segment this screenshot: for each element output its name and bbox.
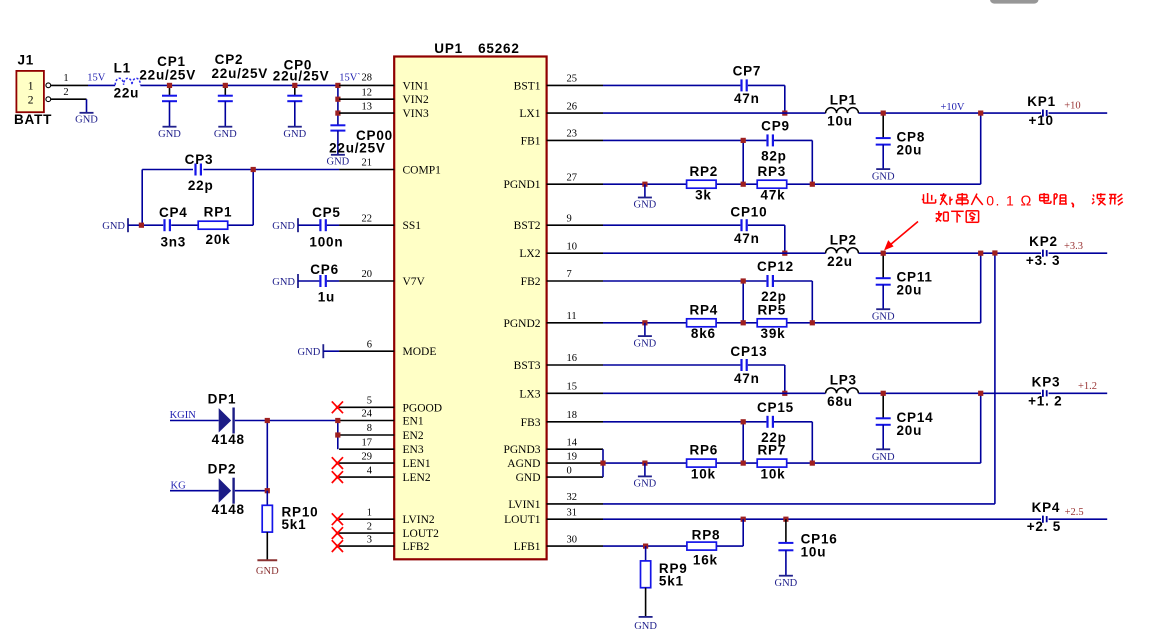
junction output rail ch2 [978,251,983,256]
junction CP7 to LX [782,111,787,116]
svg-text:22u/25V: 22u/25V [139,68,196,83]
svg-text:V7V: V7V [403,276,426,288]
svg-text:COMP1: COMP1 [403,165,442,177]
capacitor CP12 22p (feedforward) [757,259,794,304]
junction divider top [810,182,815,187]
wire J1 pin 1 to L1 (net 15V) [51,73,115,98]
junction FB1 divider tap [741,138,746,143]
svg-text:UP1: UP1 [434,41,463,56]
capacitor CP16 10u [778,519,837,576]
svg-text:1u: 1u [318,290,335,305]
junction EN2 tap [335,432,340,437]
ground (RP9) [634,617,657,632]
pin 11 (PGND2) right [503,311,603,330]
svg-text:31: 31 [567,507,578,518]
wire LX1 row [603,112,1107,114]
junction RP8 riser on LOUT1 [741,517,746,522]
wire 15V rail L1 to VIN pins [140,84,339,86]
junction FB2 divider tap [741,278,746,283]
diode DP2 4148 [208,462,245,518]
svg-text:LEN2: LEN2 [403,472,431,484]
node KG net label [171,481,187,492]
svg-text:CP12: CP12 [757,259,794,274]
svg-text:RP6: RP6 [689,443,718,458]
pin 29 (LEN1) left [339,451,431,470]
ground (CP16) [775,576,798,590]
connector KP4 (+2.5) [1027,500,1084,534]
svg-text:10k: 10k [691,467,716,482]
svg-text:GND: GND [516,472,541,484]
pin 18 (FB3) right [521,410,603,429]
svg-text:22u/25V: 22u/25V [273,69,330,84]
wire LFB1 row [603,519,743,546]
svg-text:15: 15 [567,382,578,393]
annotation text line 1 (red): 0.1 ohm note [922,192,1123,209]
junction CP0 on 15V rail [292,83,297,88]
junction CP2 on 15V rail [223,83,228,88]
svg-text:13: 13 [362,101,373,112]
svg-text:20u: 20u [897,283,923,298]
svg-text:PGND3: PGND3 [503,444,540,456]
pin 16 (BST3) right [514,353,603,372]
junction bracket AGND [600,461,605,466]
svg-text:16k: 16k [693,553,718,568]
svg-text:KP1: KP1 [1027,94,1056,109]
pin 30 (LFB1) right [514,534,603,553]
svg-text:KG: KG [171,481,187,492]
resistor RP9 5k1 [641,546,688,617]
svg-text:+2.5: +2.5 [1065,507,1084,518]
junction EN1 tap [335,418,340,423]
pin 23 (FB1) right [521,129,603,148]
svg-text:BST2: BST2 [514,220,541,232]
svg-text:17: 17 [362,437,373,448]
svg-text:GND: GND [272,277,295,288]
svg-text:BATT: BATT [14,112,52,127]
junction CP16 on LOUT1 [783,517,788,522]
svg-text:EN1: EN1 [403,416,424,428]
pin 10 (LX2) right [519,241,603,260]
svg-text:+10: +10 [1029,113,1054,128]
svg-text:9: 9 [567,213,572,224]
svg-text:LVIN2: LVIN2 [403,514,435,526]
no-connect X on PGOOD [332,401,343,413]
svg-text:0: 0 [567,465,572,476]
capacitor CP6 1u [298,262,339,305]
node +10V net label [941,102,965,113]
ground (CP00) [327,155,350,168]
pin 26 (LX1) right [519,101,603,120]
no-connect X on LOUT2 [332,527,343,539]
svg-text:CP13: CP13 [730,344,767,359]
svg-text:4148: 4148 [212,432,245,447]
capacitor CP9 82p (feedforward) [761,118,790,163]
svg-text:VIN1: VIN1 [403,80,429,92]
ground (divider ch1) [634,184,657,211]
ground (CP0) [283,127,306,140]
pin 21 (COMP1) left [339,158,441,177]
junction divider mid [741,461,746,466]
svg-text:EN2: EN2 [403,430,424,442]
junction CP1 on 15V rail [167,83,172,88]
svg-text:KP3: KP3 [1032,374,1061,389]
wire J1 pin 2 to ground [51,98,87,100]
resistor RP3 47k [757,164,787,203]
connector J1 (BATT) [14,53,52,128]
ground (RP10, power gnd) [256,560,279,577]
ground (CP6 left) [272,274,298,288]
wire LX3 row [603,392,1107,394]
wire PGND3/AGND/GND bracket [602,449,604,477]
wire PGND1 row (divider) [603,113,981,184]
svg-text:CP9: CP9 [761,118,790,133]
svg-text:47k: 47k [761,188,786,203]
svg-text:GND: GND [634,621,657,632]
inductor LP1 10u [826,93,859,129]
svg-text:5: 5 [367,396,372,407]
svg-text:GND: GND [872,172,895,183]
no-connect X on LVIN2 [332,513,343,525]
resistor RP1 20k [198,204,232,247]
svg-text:FB3: FB3 [521,417,541,429]
svg-text:30: 30 [567,534,578,545]
junction divider ground tap [642,461,647,466]
junction CP10 to LX [782,251,787,256]
svg-text:29: 29 [362,451,373,462]
pin 25 (BST1) right [514,74,603,93]
pin 27 (PGND1) right [503,172,603,191]
svg-text:47n: 47n [734,231,760,246]
svg-text:+2. 5: +2. 5 [1027,519,1061,534]
svg-text:21: 21 [362,158,373,169]
ground (CP4 left) [102,218,128,232]
junction CP14 on LX [881,391,886,396]
pin 8 (EN2) left [339,423,424,442]
svg-text:8k6: 8k6 [691,326,716,341]
svg-text:LX1: LX1 [519,108,540,120]
svg-text:LEN1: LEN1 [403,458,431,470]
svg-text:GND: GND [298,347,321,358]
pin 24 (EN1) left [339,409,424,428]
resistor RP10 5k1 [262,491,318,561]
svg-text:CP2: CP2 [215,52,244,67]
pin 13 (VIN3) left [339,101,429,120]
svg-text:LVIN1: LVIN1 [508,499,540,511]
svg-text:AGND: AGND [507,458,540,470]
svg-text:32: 32 [567,492,578,503]
svg-text:2: 2 [28,95,34,107]
svg-text:+3.3: +3.3 [1064,241,1083,252]
capacitor CP00 22u/25V [329,125,393,155]
svg-text:14: 14 [567,437,578,448]
junction CP8 on LX [881,111,886,116]
resistor RP4 8k6 [687,302,719,341]
svg-text:+10V: +10V [941,102,965,113]
wire FB2 row [603,281,812,323]
inductor LP2 22u [826,233,859,269]
svg-text:RP8: RP8 [692,528,721,543]
svg-text:BST1: BST1 [514,80,541,92]
junction DP1 node [265,418,270,423]
svg-text:RP7: RP7 [757,443,786,458]
junction divider top [810,461,815,466]
svg-text:24: 24 [362,409,373,420]
svg-text:20u: 20u [897,143,923,158]
capacitor CP1 22u/25V [139,54,196,127]
svg-text:PGND1: PGND1 [503,179,540,191]
wire PGND2 row (divider) [603,253,981,323]
svg-text:1: 1 [367,507,372,518]
svg-text:15V: 15V [87,73,106,84]
junction VIN3 branch [335,111,340,116]
svg-text:FB1: FB1 [521,135,541,147]
connector KP1 (+10) [1027,94,1080,128]
svg-text:LX3: LX3 [519,388,540,400]
svg-text:47n: 47n [734,91,760,106]
svg-text:RP2: RP2 [689,164,718,179]
capacitor CP11 20u (output) [876,253,933,309]
svg-text:2: 2 [367,521,372,532]
ground (MODE) [298,344,340,358]
resistor RP7 10k [757,443,787,482]
svg-text:GND: GND [872,312,895,323]
wire COMP1 node [142,170,339,226]
svg-text:+1. 2: +1. 2 [1028,393,1062,408]
svg-text:20k: 20k [206,232,231,247]
ground (CP1) [158,127,181,140]
resistor RP8 16k [687,528,720,568]
wire FB1 row [603,140,812,184]
svg-text:8: 8 [367,423,372,434]
svg-text:RP5: RP5 [757,302,786,317]
svg-text:EN3: EN3 [403,444,424,456]
svg-text:GND: GND [272,221,295,232]
svg-text:L1: L1 [114,61,131,76]
svg-text:RP1: RP1 [204,204,233,219]
svg-text:22: 22 [362,213,373,224]
capacitor CP7 47n (bootstrap) [603,64,785,114]
svg-text:22u/25V: 22u/25V [211,66,268,81]
svg-text:CP15: CP15 [757,400,794,415]
pin 9 (BST2) right [514,213,603,232]
ground (divider ch2) [634,323,657,350]
svg-text:22p: 22p [188,178,214,193]
junction CP11 on LX [881,251,886,256]
capacitor CP5 100n [298,205,343,249]
pin 5 (PGOOD) left [339,396,442,415]
svg-text:GND: GND [102,221,125,232]
svg-text:4148: 4148 [212,502,245,517]
capacitor CP2 22u/25V [211,52,268,127]
svg-text:CP3: CP3 [185,152,214,167]
svg-text:10u: 10u [801,545,827,560]
svg-text:GND: GND [75,115,98,126]
svg-text:3n3: 3n3 [160,234,186,249]
resistor RP5 39k [757,302,787,341]
wire SS network row [128,224,253,226]
svg-text:+3. 3: +3. 3 [1026,253,1060,268]
ground (divider ch3) [634,463,657,490]
svg-text:LOUT1: LOUT1 [504,514,541,526]
ground (CP8) [872,169,895,183]
svg-text:SS1: SS1 [403,220,422,232]
pin 1 (LVIN2) left [339,507,435,526]
junction CP13 to LX [782,391,787,396]
svg-text:J1: J1 [18,53,35,68]
ground (J1 pin 2) [75,99,98,125]
svg-text:VIN3: VIN3 [403,108,429,120]
svg-text:4: 4 [367,465,373,476]
pin 6 (MODE) left [339,339,436,358]
svg-text:CP5: CP5 [312,205,341,220]
resistor RP6 10k [687,443,719,482]
no-connect X on LFB2 [332,540,343,552]
svg-text:100n: 100n [309,234,343,249]
wire FB3 row [603,422,812,463]
pin 4 (LEN2) left [339,465,431,484]
svg-text:16: 16 [567,353,578,364]
svg-text:LFB1: LFB1 [514,541,541,553]
svg-text:Ω: Ω [1021,194,1032,210]
svg-text:10k: 10k [761,467,786,482]
svg-text:25: 25 [567,74,578,85]
resistor RP2 3k [687,164,719,203]
svg-text:CP10: CP10 [730,204,767,219]
junction VIN2 branch [335,97,340,102]
svg-text:FB2: FB2 [521,276,541,288]
pin 31 (LOUT1) right [504,507,603,526]
node 15V net label at VIN1 [339,73,372,84]
svg-text:15V`: 15V` [339,73,361,84]
svg-text:GND: GND [872,452,895,463]
junction divider mid [741,320,746,325]
connector KP3 (+1.2) [1028,374,1097,408]
svg-text:22u: 22u [827,254,853,269]
wire KG to DP2 [170,490,219,492]
svg-text:LP1: LP1 [830,93,857,108]
pin 7 (FB2) right [521,269,603,288]
svg-text:39k: 39k [761,326,786,341]
svg-text:CP4: CP4 [159,205,188,220]
junction RP9 tap [643,544,648,549]
junction VIN1 branch [335,83,340,88]
wire LOUT1 row (KP4 net) [603,518,1107,520]
junction +3.3 rail LVIN1 drop [992,250,997,255]
svg-text:GND: GND [214,129,237,140]
svg-text:MODE: MODE [403,346,437,358]
pin 2 (LOUT2) left [339,521,439,540]
ground (CP5 left) [272,218,298,232]
capacitor CP8 20u (output) [876,113,925,169]
svg-text:10: 10 [567,241,578,252]
pin 15 (LX3) right [519,382,603,401]
svg-text:CP7: CP7 [733,64,762,79]
svg-text:CP6: CP6 [310,262,339,277]
svg-text:LP2: LP2 [830,233,857,248]
wire LX2 row [603,252,1107,254]
junction FB3 divider tap [741,419,746,424]
svg-text:7: 7 [567,269,572,280]
inductor L1 22u [114,61,141,101]
ground (CP2) [214,127,237,140]
svg-text:11: 11 [567,311,577,322]
svg-text:23: 23 [567,129,578,140]
junction divider ground tap [642,320,647,325]
svg-text:LP3: LP3 [830,373,857,388]
junction divider ground tap [642,182,647,187]
node KGIN net label [170,410,197,421]
capacitor CP4 3n3 [159,205,188,249]
svg-text:20: 20 [362,269,373,280]
junction COMP1/CP3 right [251,167,256,172]
svg-text:LFB2: LFB2 [403,541,430,553]
svg-text:10u: 10u [827,114,853,129]
svg-text:5k1: 5k1 [282,517,307,532]
svg-text:65262: 65262 [478,41,520,56]
svg-text:20u: 20u [897,423,923,438]
capacitor CP14 20u (output) [876,393,934,449]
junction divider mid [741,182,746,187]
pin 3 (LFB2) left [339,534,429,553]
svg-text:28: 28 [362,73,373,84]
svg-text:VIN2: VIN2 [403,94,429,106]
pin 14 (PGND3) right [503,437,603,456]
svg-text:12: 12 [362,87,373,98]
junction CP3-left / CP4 node [139,223,144,228]
wire VIN branch vertical [338,85,339,125]
svg-text:BST3: BST3 [514,360,541,372]
svg-text:LX2: LX2 [519,248,540,260]
svg-text:19: 19 [567,451,578,462]
svg-text:RP4: RP4 [689,302,718,317]
capacitor CP3 22p [185,152,214,193]
junction output rail ch1 [978,111,983,116]
svg-text:27: 27 [567,172,578,183]
svg-text:KGIN: KGIN [170,410,197,421]
svg-text:KP4: KP4 [1032,500,1061,515]
junction divider top [810,320,815,325]
pin 0 (GND) right [516,465,603,484]
annotation arrow (0.1 ohm note) [884,222,918,251]
pin 28 (VIN1) left [339,80,429,92]
svg-text:PGND2: PGND2 [503,318,540,330]
annotation text line 2 (red) [936,211,979,223]
svg-text:6: 6 [367,339,372,350]
inductor LP3 68u [826,373,859,409]
svg-text:PGOOD: PGOOD [403,402,443,414]
pin 20 (V7V) left [339,269,425,288]
svg-text:1: 1 [28,81,34,93]
op-amp/regulator U1: IC UP1 65262 [394,41,546,559]
wire KGIN to DP1 [170,420,219,422]
svg-text:26: 26 [567,101,578,112]
svg-text:68u: 68u [827,394,853,409]
pin 12 (VIN2) left [339,87,429,106]
svg-text:0. 1: 0. 1 [986,192,1015,208]
junction DP2/RP10 node [265,488,270,493]
svg-text:DP2: DP2 [208,462,237,477]
svg-text:3: 3 [367,534,372,545]
pin 19 (AGND) right [507,451,603,470]
svg-text:GND: GND [634,479,657,490]
no-connect X on LEN1 [332,457,343,469]
connector KP2 (+3.3) [1026,234,1083,268]
svg-text:GND: GND [634,338,657,349]
pin 17 (EN3) left [339,437,424,456]
svg-text:+1.2: +1.2 [1078,381,1097,392]
wire DP2 cathode [235,490,267,492]
svg-text:RP3: RP3 [757,164,786,179]
